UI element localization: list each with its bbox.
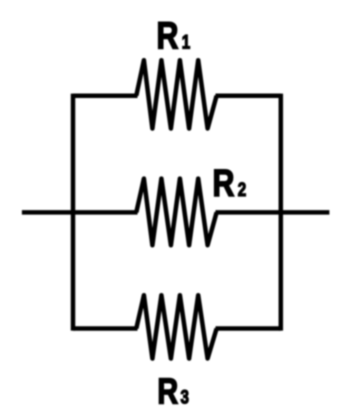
resistor R1: [136, 60, 216, 128]
resistor R2: [136, 179, 216, 246]
label R3: [157, 371, 188, 412]
svg-text:2: 2: [238, 178, 246, 200]
resistor R3: [136, 295, 216, 358]
svg-text:R: R: [157, 371, 178, 412]
label R1: [157, 15, 191, 57]
wire: bottom branch, R3 to right bus: [216, 326, 281, 331]
svg-text:1: 1: [182, 31, 191, 53]
label R2: [213, 163, 247, 205]
wire: middle branch, R2 to right terminal lead: [216, 210, 330, 215]
wire: bottom branch, left bus to R3: [73, 326, 138, 331]
wire: right vertical bus: [279, 94, 284, 331]
wire: top branch, R1 to right bus: [216, 93, 281, 98]
wire: top branch, left bus to R1: [73, 93, 138, 98]
svg-text:R: R: [157, 15, 179, 57]
wire: middle branch, left terminal lead to R2: [22, 210, 138, 215]
svg-text:3: 3: [180, 386, 188, 408]
wire: left vertical bus: [71, 94, 76, 331]
svg-text:R: R: [213, 163, 235, 205]
